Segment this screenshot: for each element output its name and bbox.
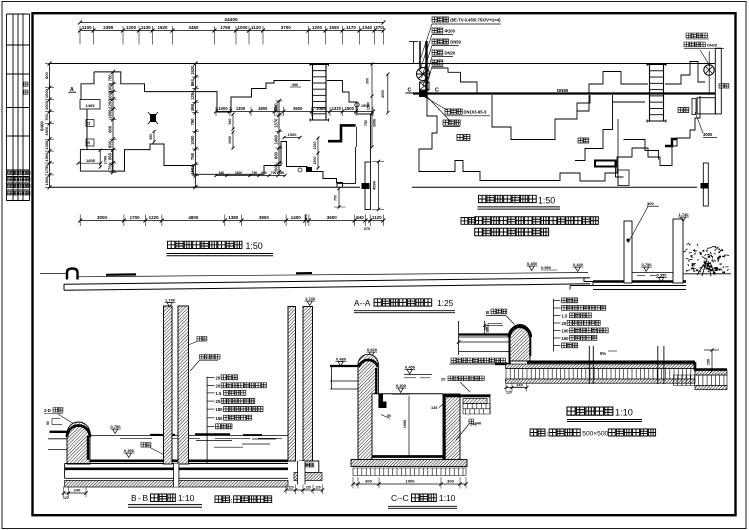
svg-text:150: 150 — [562, 336, 570, 341]
B-B joint filler label — [200, 355, 221, 360]
B-B bottom left dims — [64, 492, 87, 494]
plan1 stream upper bank outline — [94, 72, 311, 112]
svg-text:5%: 5% — [600, 351, 606, 356]
plan1 box 1405 — [80, 100, 100, 110]
svg-text:850: 850 — [107, 152, 112, 160]
svg-text:500×500: 500×500 — [582, 431, 608, 438]
plan1 small circle drain and 1500 label — [355, 103, 359, 107]
C-C backfill hatch right — [463, 399, 487, 404]
plan1 stream lower bank outline — [81, 72, 343, 187]
svg-text:1600: 1600 — [275, 105, 279, 113]
svg-text:Φ100: Φ100 — [445, 29, 456, 34]
plan1 fountain symbol blob — [150, 114, 156, 122]
svg-text:0.350: 0.350 — [657, 272, 668, 277]
svg-text:DN50: DN50 — [450, 40, 461, 45]
svg-text:20: 20 — [441, 377, 446, 382]
svg-text:1220: 1220 — [149, 215, 160, 220]
svg-text:1500: 1500 — [345, 106, 355, 111]
plan2 right end pump — [704, 65, 714, 75]
A-A pool floor thick — [593, 280, 686, 283]
svg-text:24400: 24400 — [224, 17, 238, 23]
svg-text:1490: 1490 — [273, 134, 278, 144]
C-C backfill bricks right — [463, 404, 490, 415]
svg-text:0.480: 0.480 — [336, 357, 347, 362]
svg-text:500: 500 — [273, 163, 278, 171]
plan bottom boundary line — [50, 186, 361, 188]
svg-text:860: 860 — [190, 103, 195, 111]
plan2 island bank fork — [575, 95, 659, 177]
detail lower brick band — [674, 375, 728, 386]
svg-text:50: 50 — [46, 421, 50, 425]
svg-text:120: 120 — [315, 486, 321, 490]
svg-text:3700: 3700 — [281, 25, 292, 30]
svg-text:1.740: 1.740 — [165, 298, 176, 303]
svg-text:1000: 1000 — [406, 479, 416, 484]
svg-text:1:50: 1:50 — [246, 241, 263, 251]
A-A pool walls — [624, 221, 632, 283]
plan2 pond upper bank right half — [589, 72, 648, 94]
detail lower second hatch band — [695, 386, 727, 390]
svg-text:20: 20 — [216, 399, 221, 404]
detail hatch band — [506, 364, 695, 369]
C-C foundation slab hatch — [351, 460, 467, 467]
svg-text:B: B — [143, 493, 149, 503]
svg-text:1400: 1400 — [291, 215, 302, 220]
detail right vertical dim — [704, 349, 719, 351]
plan1 dim 950 rotated — [153, 131, 155, 142]
plan2 leader labels — [432, 17, 449, 22]
svg-text:1800: 1800 — [235, 171, 243, 175]
plan1 bottom dimension chain — [80, 220, 383, 222]
svg-text:1:25: 1:25 — [437, 298, 454, 308]
B-B pool floor thick — [90, 459, 288, 462]
svg-text:700: 700 — [44, 113, 49, 120]
svg-text:(8E-TV-0.45/0.75X/V+U=4): (8E-TV-0.45/0.75X/V+U=4) — [450, 18, 501, 23]
plan2 main water pipe thick — [413, 92, 717, 94]
detail second hatch band — [506, 379, 695, 383]
C-C wall inner steps — [378, 394, 386, 408]
svg-text:1000: 1000 — [190, 135, 195, 145]
C-C pool interior dim 1000 — [408, 396, 410, 456]
svg-text:370: 370 — [375, 25, 383, 30]
svg-text:1760: 1760 — [220, 25, 231, 30]
svg-text:1260: 1260 — [313, 142, 317, 150]
detail step down right — [695, 362, 727, 370]
B-B foundation slab — [65, 463, 288, 465]
svg-text:1500: 1500 — [44, 152, 49, 162]
B-B left columns drain pipe — [174, 464, 179, 487]
svg-text:1:10: 1:10 — [615, 408, 633, 418]
title block small labels — [24, 82, 28, 86]
plan1 dim 4590 — [378, 162, 380, 210]
plan1 overall top dimension 24400 — [80, 22, 384, 24]
svg-text:1850: 1850 — [107, 109, 112, 119]
detail layer leader stack — [553, 299, 555, 352]
B-B curb label — [197, 337, 207, 342]
svg-text:750: 750 — [364, 120, 368, 126]
svg-text:3460: 3460 — [188, 25, 199, 30]
A-A approach line — [40, 273, 66, 275]
svg-text:12: 12 — [87, 122, 91, 126]
svg-text:1500: 1500 — [44, 176, 49, 186]
svg-text:0.450: 0.450 — [405, 365, 416, 370]
svg-text:B: B — [486, 310, 489, 315]
svg-text:0.750: 0.750 — [642, 262, 653, 267]
deck between C-C and detail — [459, 333, 510, 335]
plan1 dim 1000 interior — [284, 137, 300, 139]
svg-text:800: 800 — [107, 125, 112, 133]
detail rounded wall — [510, 325, 530, 364]
svg-text:1120: 1120 — [372, 215, 382, 220]
svg-text:4000: 4000 — [381, 90, 385, 98]
plan2 pond far bank below pipe — [492, 95, 589, 140]
plan1 thick wall L-shape — [328, 125, 356, 141]
svg-text:1120: 1120 — [251, 25, 261, 30]
svg-text:1.5: 1.5 — [216, 391, 222, 396]
svg-text:810: 810 — [279, 171, 285, 175]
svg-text:1:10: 1:10 — [439, 493, 456, 503]
svg-text:120: 120 — [288, 486, 294, 490]
plan2 valve below pump — [420, 82, 430, 90]
plan2 pond upper bank — [432, 68, 477, 94]
svg-text:3600: 3600 — [327, 215, 338, 220]
plan2 label 3000 leader — [695, 112, 703, 133]
svg-text:950: 950 — [149, 134, 153, 140]
plan2 pond lower bank — [419, 96, 700, 181]
detail note — [530, 429, 545, 436]
plan1 dim 700 lower — [338, 189, 340, 208]
detail left ledge thick — [495, 363, 511, 365]
plan2 right end labels — [686, 33, 707, 38]
A-A thick stone patches — [106, 273, 136, 276]
svg-text:1700: 1700 — [130, 215, 141, 220]
svg-text:800: 800 — [261, 171, 267, 175]
C-C left ledge — [330, 365, 358, 367]
plan2 drop pipe vertical — [617, 119, 619, 186]
A-A tree plant — [683, 243, 729, 272]
svg-text:1.740: 1.740 — [679, 212, 690, 217]
svg-text:3656: 3656 — [373, 119, 377, 127]
C-C mortar label right — [451, 358, 506, 363]
svg-text:B: B — [131, 493, 137, 503]
detail title — [567, 407, 613, 415]
svg-text:A--A: A--A — [354, 299, 371, 308]
svg-text:600: 600 — [44, 71, 49, 78]
svg-text:864: 864 — [190, 78, 195, 86]
B-B layer leader stack — [206, 377, 208, 464]
svg-text:2390: 2390 — [103, 25, 114, 30]
svg-text:120: 120 — [506, 391, 512, 395]
svg-text:240: 240 — [516, 382, 523, 387]
deck dim 50 — [487, 324, 489, 333]
plan2 title — [479, 195, 537, 202]
svg-text:1.5: 1.5 — [562, 314, 568, 319]
detail bottom-left dim 120 240 — [506, 387, 527, 389]
A-A right standpipe bar — [703, 163, 708, 206]
B-B waterline — [90, 435, 288, 437]
plan1 right vertical dims — [371, 64, 373, 147]
detail break marks — [588, 346, 590, 384]
svg-text:20: 20 — [216, 384, 221, 389]
svg-text:1855: 1855 — [86, 158, 96, 163]
B-B ground hatch — [65, 480, 288, 487]
svg-text:300: 300 — [447, 479, 454, 484]
plan2 note line1 — [461, 218, 476, 225]
svg-text:0.550: 0.550 — [541, 265, 552, 270]
svg-text:0.350: 0.350 — [124, 448, 135, 453]
svg-text:135: 135 — [305, 486, 311, 490]
svg-text:DN80: DN80 — [557, 88, 569, 93]
plan2 pump symbol — [417, 68, 430, 81]
svg-text:1380: 1380 — [228, 215, 239, 220]
svg-text:150: 150 — [216, 416, 224, 421]
svg-text:1354: 1354 — [190, 90, 195, 100]
svg-text:0.750: 0.750 — [111, 424, 122, 429]
svg-text::: : — [231, 499, 233, 505]
plan1 lower lobe 1855 — [80, 150, 112, 172]
plan2 outlet narrow rect — [692, 99, 696, 115]
plan1 interior vertical dim chain C — [278, 101, 280, 172]
svg-text:758: 758 — [190, 152, 195, 160]
svg-text:1300: 1300 — [236, 106, 246, 111]
svg-text::: : — [546, 432, 548, 438]
svg-text:700: 700 — [334, 195, 338, 201]
svg-text:150: 150 — [486, 327, 490, 333]
svg-text:1620: 1620 — [157, 25, 168, 30]
svg-text:DN103-95-3: DN103-95-3 — [463, 110, 486, 115]
plan2 inlet box below pipe — [697, 98, 715, 114]
svg-text:4800: 4800 — [188, 215, 199, 220]
plan2 thick weir bar — [595, 161, 616, 167]
svg-text:700: 700 — [107, 74, 112, 82]
svg-text:3600: 3600 — [293, 106, 303, 111]
plan2 interior labels — [457, 135, 470, 141]
bridge ladder plan1 — [312, 65, 314, 121]
svg-text:-: - — [138, 493, 141, 503]
svg-text:780: 780 — [190, 118, 195, 126]
svg-text:15: 15 — [87, 141, 91, 145]
A-A water line — [78, 273, 588, 277]
svg-text:0.450: 0.450 — [527, 261, 538, 266]
plan1 rotated dim 1500 — [317, 138, 319, 168]
detail top surface thick line — [527, 361, 695, 364]
B-B soil label blob — [141, 443, 151, 448]
svg-text:0.440: 0.440 — [573, 262, 584, 267]
svg-text:240: 240 — [74, 488, 81, 493]
svg-text:0.620: 0.620 — [367, 347, 378, 352]
svg-text:800: 800 — [273, 151, 278, 159]
svg-text:1:50: 1:50 — [538, 195, 555, 205]
C-C bottom dim chain — [353, 483, 466, 485]
plan2 thick weir step — [665, 139, 677, 146]
svg-text:240: 240 — [475, 421, 482, 426]
A-A pool slab lines — [570, 285, 686, 287]
plan1 small notches — [86, 120, 94, 127]
svg-text:1370: 1370 — [273, 118, 278, 128]
B-B note — [215, 496, 230, 503]
svg-text:1500: 1500 — [367, 102, 371, 110]
plan1 interior vertical dim chain A — [112, 72, 114, 172]
svg-text:1:10: 1:10 — [178, 493, 195, 503]
svg-text:1000: 1000 — [44, 88, 49, 98]
plan top boundary line — [50, 63, 719, 65]
svg-text:1520: 1520 — [190, 65, 195, 75]
svg-text:135: 135 — [431, 406, 437, 410]
A-A leader end dot — [627, 239, 630, 242]
plan1 interior vertical dim chain B — [195, 64, 197, 188]
svg-text:1200: 1200 — [107, 99, 112, 109]
plan2 note line2 — [475, 228, 549, 236]
svg-text:C--C: C--C — [391, 493, 409, 503]
plan1 title — [168, 241, 243, 248]
svg-text:1200: 1200 — [126, 25, 137, 30]
B-B left ledge — [50, 431, 67, 433]
svg-text:940: 940 — [228, 119, 232, 125]
plan1 small dark marks — [306, 167, 312, 172]
A-A step down to pool — [584, 278, 593, 286]
plan1 top dimension chain — [80, 30, 384, 32]
svg-text:150: 150 — [707, 359, 711, 365]
plan1 stream upper bank right of bridge — [327, 81, 371, 163]
svg-text:DN20: DN20 — [445, 51, 456, 56]
svg-text:1200: 1200 — [312, 25, 323, 30]
detail dim 150 left — [484, 321, 486, 334]
svg-text:1500: 1500 — [313, 157, 317, 165]
svg-text:1300: 1300 — [44, 140, 49, 150]
svg-text:2-D: 2-D — [44, 408, 51, 413]
A-A left spout wall — [67, 269, 78, 280]
svg-text:20: 20 — [562, 321, 567, 326]
svg-text:120: 120 — [63, 496, 69, 500]
svg-text:1100: 1100 — [82, 25, 92, 30]
svg-text:800: 800 — [107, 140, 112, 148]
svg-text:1000: 1000 — [237, 25, 248, 30]
svg-text:1000: 1000 — [288, 132, 298, 137]
svg-text:840: 840 — [356, 215, 364, 220]
plan2 right end wall bar — [715, 48, 721, 114]
svg-text:1800: 1800 — [258, 106, 268, 111]
svg-text:8400: 8400 — [40, 121, 45, 131]
A-A pool waterline — [632, 272, 674, 274]
title block table left strip — [6, 14, 8, 201]
svg-text:300: 300 — [365, 479, 372, 484]
plan2 inlet pipes left — [413, 41, 415, 64]
svg-text:2400: 2400 — [316, 106, 326, 111]
C-C left wall hatched with round cap — [358, 354, 378, 459]
bridge ladder plan2 — [649, 65, 651, 122]
svg-text:300: 300 — [304, 214, 308, 220]
svg-text:1130: 1130 — [141, 25, 151, 30]
C-C rim thick extension right — [443, 394, 490, 397]
svg-text:100: 100 — [562, 329, 570, 334]
svg-text:1170: 1170 — [346, 25, 356, 30]
svg-text:1000: 1000 — [107, 90, 112, 100]
svg-text:840: 840 — [219, 171, 225, 175]
svg-text:1000: 1000 — [218, 106, 228, 111]
svg-text:300: 300 — [292, 83, 298, 87]
svg-text:1940: 1940 — [228, 136, 232, 144]
svg-text:0.300: 0.300 — [396, 383, 407, 388]
svg-text:1750: 1750 — [44, 164, 49, 174]
plan2 leader to drain labels — [424, 97, 447, 111]
C-C right wall hatched — [443, 394, 460, 460]
svg-text:1700: 1700 — [107, 162, 112, 172]
svg-text:1405: 1405 — [86, 103, 96, 108]
svg-text:370: 370 — [364, 226, 371, 231]
detail lower hatch band — [695, 371, 727, 376]
svg-text:1550: 1550 — [329, 25, 340, 30]
svg-text:3000: 3000 — [703, 132, 713, 137]
svg-text:1000: 1000 — [403, 420, 407, 428]
svg-text:300: 300 — [647, 201, 654, 206]
svg-text:DN20: DN20 — [707, 43, 718, 48]
plan1 dim 940 — [232, 114, 234, 129]
svg-text:1601: 1601 — [190, 165, 195, 175]
C-C brick row below slab — [353, 468, 466, 476]
svg-text:700: 700 — [252, 171, 258, 175]
svg-text:3800: 3800 — [259, 215, 270, 220]
plan1 dim 1940 — [232, 132, 234, 148]
B-B left wall columns hatched — [164, 306, 173, 464]
B-B curved spout wall — [67, 422, 90, 464]
B-B right footing — [300, 461, 319, 473]
svg-text:700: 700 — [271, 171, 277, 175]
svg-text:1000: 1000 — [44, 100, 49, 110]
svg-text:3000: 3000 — [97, 215, 108, 220]
C-C pool rim line — [378, 393, 443, 395]
svg-text:180: 180 — [216, 407, 224, 412]
A-A ground line right of pool — [684, 273, 732, 275]
B-B right wall columns hatched — [288, 307, 296, 462]
svg-text:1340: 1340 — [362, 25, 373, 30]
plan1 wall bar 4590 — [365, 162, 371, 210]
A-A ground band — [64, 278, 590, 285]
C-C pool floor thick — [372, 455, 445, 458]
plan1 mid horizontal dim chain — [216, 110, 373, 112]
svg-text:20: 20 — [216, 376, 221, 381]
B-B bottom right dims — [286, 489, 323, 491]
B-B right columns drain pipe — [298, 461, 306, 484]
svg-text:1500: 1500 — [44, 126, 49, 136]
detail brick band — [506, 369, 695, 380]
svg-text:300: 300 — [366, 78, 370, 84]
svg-text:1320: 1320 — [332, 106, 342, 111]
svg-text:4590: 4590 — [372, 180, 377, 190]
plan1 left vertical dimension chain 8400 — [49, 64, 51, 188]
svg-text:1.740: 1.740 — [305, 296, 316, 301]
plan1 sub dim chain — [216, 175, 285, 177]
